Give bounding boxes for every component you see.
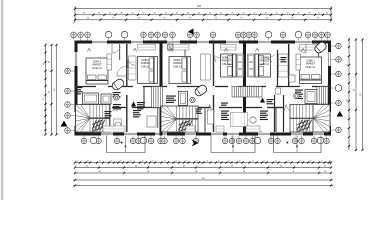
svg-text:10.90 m2: 10.90 m2 [92,68,102,70]
svg-text:96: 96 [49,61,51,63]
svg-text:15: 15 [130,161,132,163]
svg-text:78: 78 [240,18,242,20]
svg-text:78: 78 [266,18,268,20]
svg-text:48: 48 [231,13,233,15]
svg-text:96: 96 [98,171,100,173]
svg-text:SOBA 2: SOBA 2 [174,59,183,62]
svg-text:40: 40 [198,13,200,15]
svg-text:53: 53 [176,13,178,15]
svg-text:78: 78 [163,18,165,20]
svg-text:15: 15 [263,161,265,163]
svg-text:15: 15 [275,161,277,163]
svg-text:35: 35 [43,63,45,65]
svg-text:62: 62 [231,165,233,167]
svg-text:35: 35 [347,99,349,101]
svg-text:1.5 m2: 1.5 m2 [112,110,119,112]
svg-text:15: 15 [164,161,166,163]
svg-text:PARKET: PARKET [92,64,102,67]
svg-text:15: 15 [142,161,144,163]
svg-text:15: 15 [310,161,312,163]
svg-text:15: 15 [228,161,230,163]
svg-text:15: 15 [175,161,177,163]
svg-text:62: 62 [280,165,282,167]
svg-text:78: 78 [87,18,89,20]
svg-text:SOBA 1: SOBA 1 [93,61,102,64]
svg-text:15: 15 [329,161,331,163]
svg-text:50: 50 [253,13,255,15]
svg-text:15: 15 [196,161,198,163]
svg-text:15: 15 [152,161,154,163]
svg-text:15: 15 [252,161,254,163]
svg-text:SOBA 1: SOBA 1 [306,60,315,63]
svg-text:39: 39 [308,13,310,15]
svg-text:43: 43 [209,13,211,15]
svg-text:15: 15 [111,161,113,163]
svg-text:15: 15 [77,161,79,163]
svg-text:15: 15 [300,161,302,163]
svg-text:78: 78 [112,18,114,20]
svg-text:52: 52 [220,13,222,15]
svg-text:58: 58 [49,91,51,93]
svg-text:9.80 m2: 9.80 m2 [174,66,183,68]
svg-text:62: 62 [86,165,88,167]
svg-text:78: 78 [317,18,319,20]
svg-text:PARKET: PARKET [306,63,316,66]
svg-text:15: 15 [99,161,101,163]
svg-text:15: 15 [218,161,220,163]
svg-text:37: 37 [297,13,299,15]
svg-text:78: 78 [215,18,217,20]
svg-text:62: 62 [135,165,137,167]
svg-text:15: 15 [87,161,89,163]
svg-text:15: 15 [206,161,208,163]
svg-text:15: 15 [288,161,290,163]
svg-text:SOBA 2: SOBA 2 [141,59,150,62]
svg-text:310: 310 [54,88,56,91]
svg-text:57: 57 [154,13,156,15]
svg-text:96: 96 [324,171,326,173]
svg-text:51: 51 [142,13,144,15]
svg-text:PARKET: PARKET [173,62,183,65]
svg-text:PARKET: PARKET [222,60,232,63]
svg-text:35: 35 [347,64,349,66]
svg-text:35: 35 [43,98,45,100]
svg-text:96: 96 [354,89,356,91]
svg-text:47: 47 [242,13,244,15]
svg-text:46: 46 [264,13,266,15]
svg-text:9.80 m2: 9.80 m2 [261,64,270,66]
svg-text:PARKET: PARKET [141,62,151,65]
svg-text:78: 78 [138,18,140,20]
svg-text:44: 44 [326,13,328,15]
svg-text:PARKET: PARKET [260,60,270,63]
svg-text:15: 15 [120,161,122,163]
svg-text:96: 96 [195,171,197,173]
svg-text:9.80 m2: 9.80 m2 [141,66,150,68]
svg-text:15: 15 [321,161,323,163]
svg-text:62: 62 [324,165,326,167]
svg-text:49: 49 [286,13,288,15]
svg-text:15: 15 [239,161,241,163]
svg-text:96: 96 [292,171,294,173]
svg-text:96: 96 [243,171,245,173]
svg-text:78: 78 [291,18,293,20]
svg-text:62: 62 [183,165,185,167]
svg-text:45: 45 [275,13,277,15]
svg-text:38: 38 [120,13,122,15]
svg-text:35: 35 [98,13,100,15]
svg-text:SOBA 2: SOBA 2 [222,57,231,60]
svg-text:55: 55 [165,13,167,15]
svg-text:85: 85 [83,13,85,15]
svg-text:40: 40 [131,13,133,15]
svg-text:314: 314 [197,5,202,8]
svg-text:96: 96 [147,171,149,173]
svg-text:41: 41 [318,13,320,15]
svg-text:42: 42 [109,13,111,15]
svg-text:15: 15 [185,161,187,163]
svg-text:310: 310 [360,93,362,96]
svg-text:13: 13 [72,23,74,25]
svg-text:78: 78 [189,18,191,20]
svg-text:9.80 m2: 9.80 m2 [222,64,231,66]
svg-text:36: 36 [187,13,189,15]
svg-text:10.90 m2: 10.90 m2 [306,67,316,69]
